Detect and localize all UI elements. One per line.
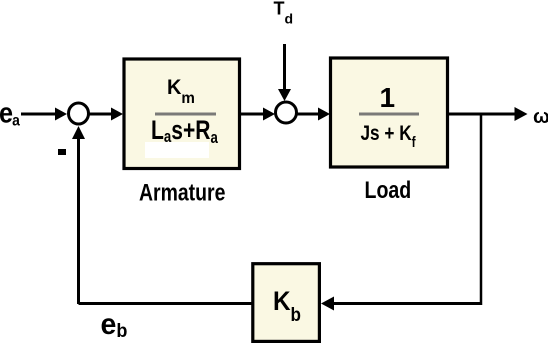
wire: Td into S2	[278, 44, 291, 101]
input label e_a	[0, 96, 21, 130]
wire: S1 to Armature block	[89, 108, 123, 121]
label Load	[365, 176, 412, 203]
svg-text:eb: eb	[101, 308, 128, 341]
value label Km (numerator)	[167, 76, 195, 108]
wire: Armature to summing junction S2	[240, 108, 275, 121]
value label 1 (numerator)	[380, 82, 396, 113]
minus sign at S1	[58, 149, 66, 155]
disturbance label Td	[274, 0, 294, 27]
svg-text:ea: ea	[0, 96, 21, 130]
fraction line in Armature block	[155, 113, 216, 116]
value label Kb	[273, 287, 301, 325]
fraction line in Load block	[359, 113, 419, 116]
wire: feedback up into S1	[72, 126, 85, 304]
svg-text:Las+Ra: Las+Ra	[151, 116, 218, 148]
label e_b	[101, 308, 128, 341]
output label omega	[533, 106, 548, 128]
value label Las+Ra (denominator)	[151, 116, 218, 148]
wire: e_a to summing junction S1	[21, 108, 67, 121]
svg-text:Armature: Armature	[139, 179, 225, 206]
block Kb	[253, 264, 320, 342]
svg-text:1: 1	[380, 82, 396, 113]
svg-text:Load: Load	[365, 176, 412, 203]
svg-text:Td: Td	[274, 0, 294, 27]
wire: feedback into Kb block	[321, 297, 481, 311]
wire: S2 to Load block	[297, 108, 330, 121]
block Load 1/(Js+Kf)	[331, 58, 448, 167]
block Armature Km/(Las+Ra)	[124, 59, 240, 169]
summing junction S2	[276, 102, 297, 123]
wire: Kb output to left	[79, 302, 254, 305]
label Armature	[139, 179, 225, 206]
svg-text:ω: ω	[533, 106, 548, 128]
wire: Load to output	[448, 107, 528, 121]
summing junction S1	[69, 103, 89, 124]
value label Js + Kf (denominator)	[361, 121, 417, 150]
wire: feedback branch down from output line	[480, 114, 483, 305]
